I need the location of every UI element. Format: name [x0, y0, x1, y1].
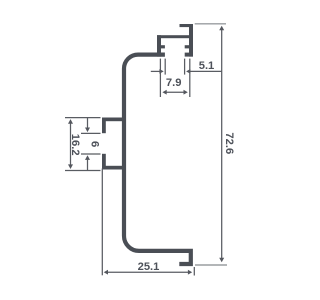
svg-text:16.2: 16.2 — [69, 134, 81, 156]
svg-text:72.6: 72.6 — [223, 132, 235, 154]
svg-text:25.1: 25.1 — [138, 261, 160, 273]
svg-text:6: 6 — [88, 141, 100, 147]
svg-text:5.1: 5.1 — [199, 60, 215, 72]
svg-text:7.9: 7.9 — [166, 77, 182, 89]
